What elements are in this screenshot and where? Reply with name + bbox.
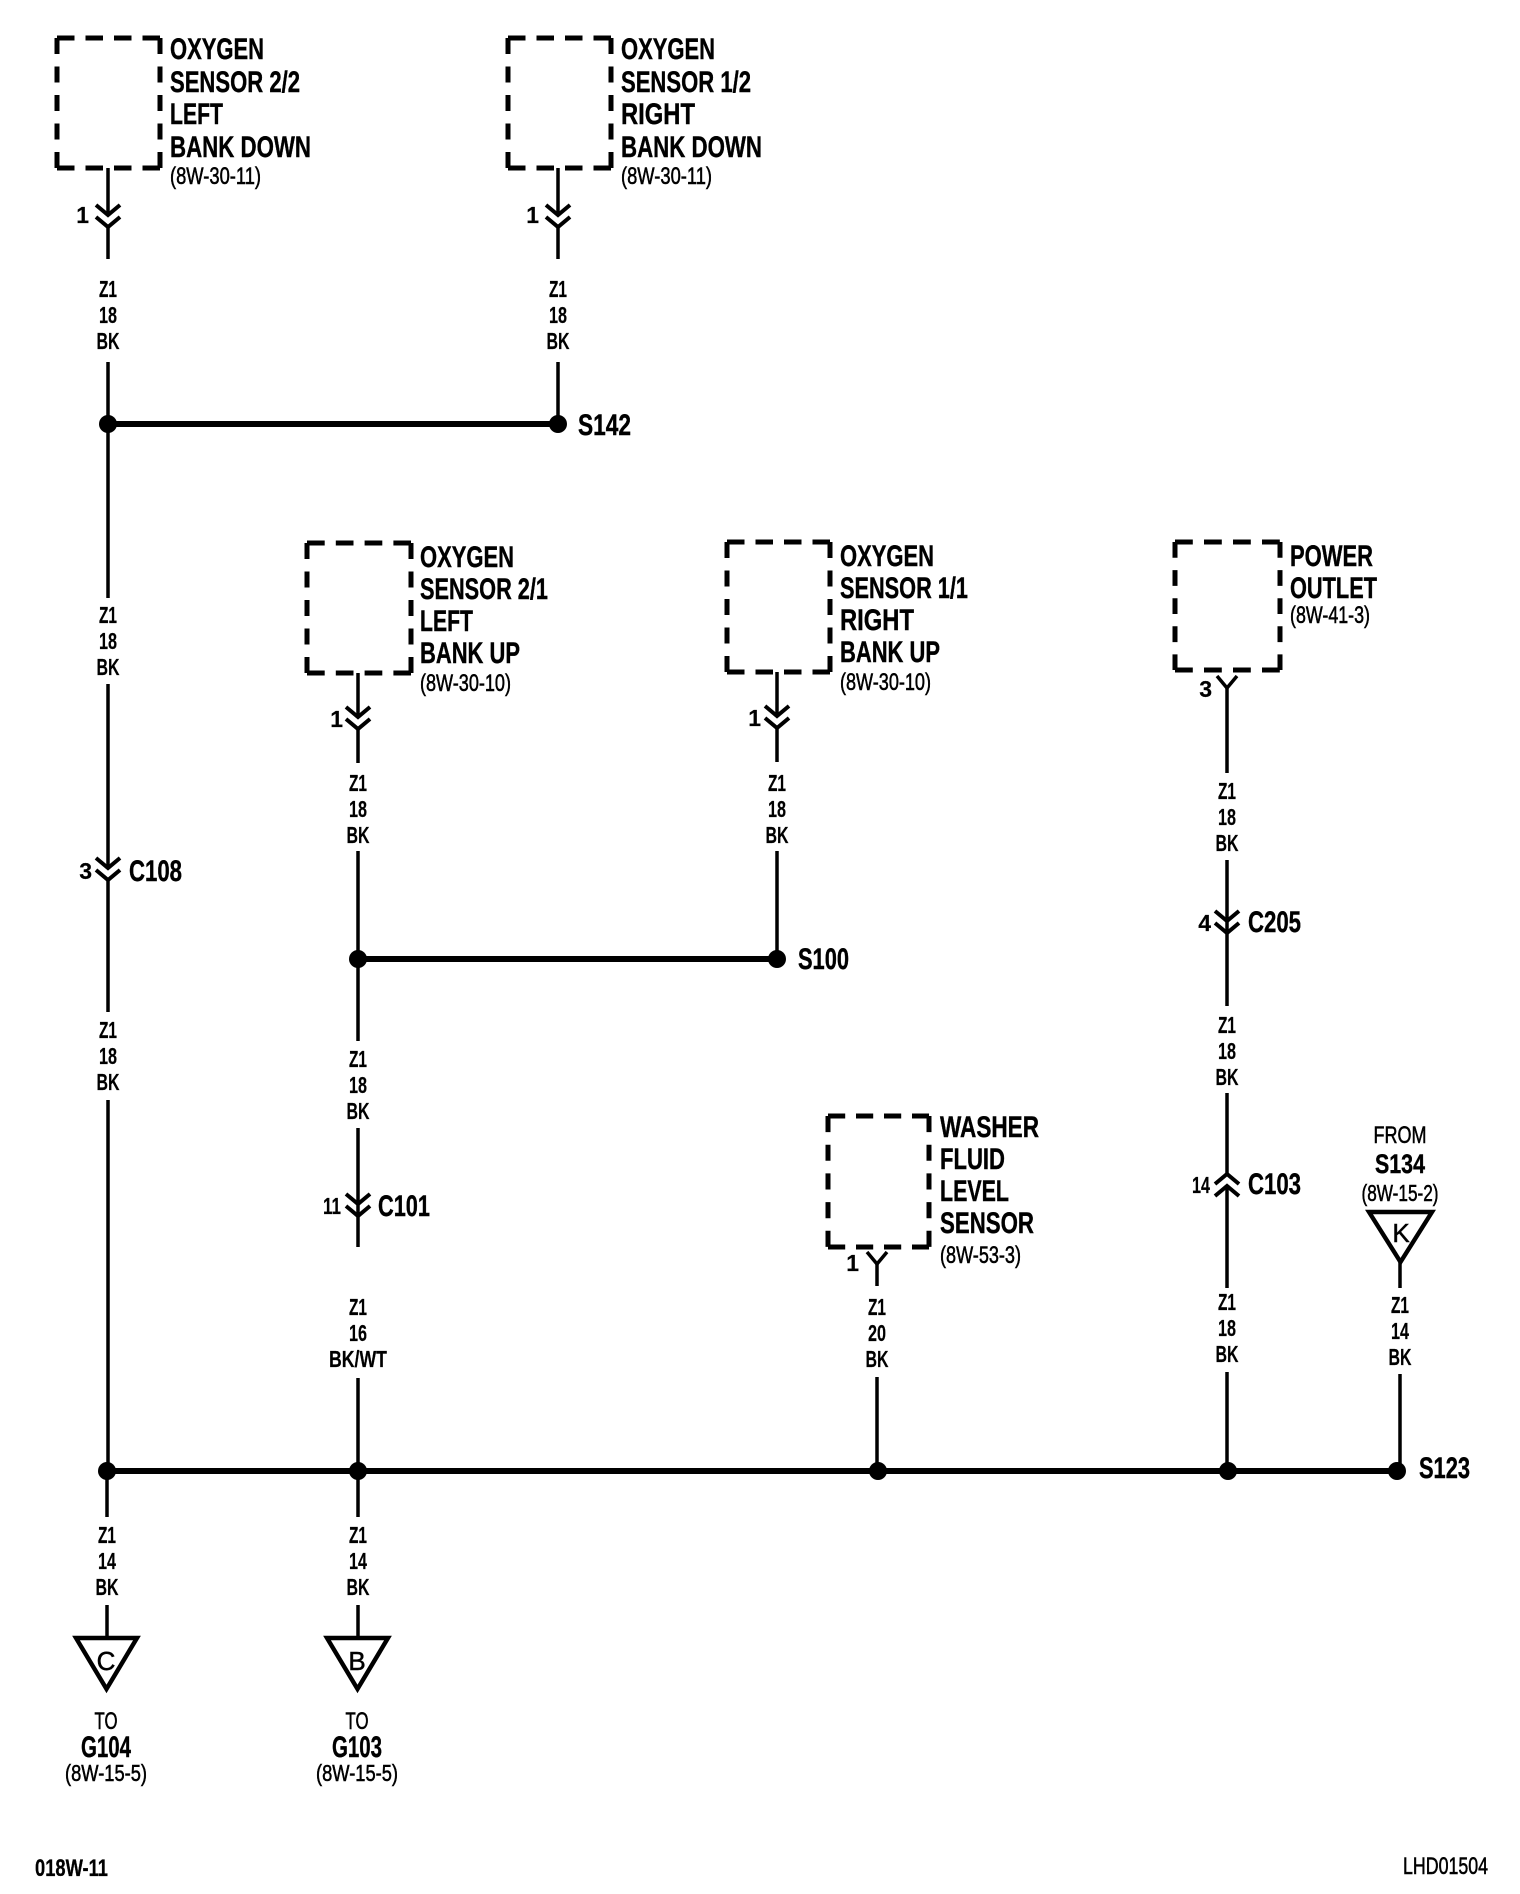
junction node	[98, 1462, 116, 1480]
wire	[1225, 1372, 1229, 1471]
connector pin 1 of oxygen sensor 1/2	[546, 205, 570, 215]
svg-text:18: 18	[1218, 1315, 1236, 1341]
svg-text:16: 16	[349, 1320, 367, 1346]
svg-text:BK: BK	[1389, 1344, 1412, 1370]
connector pin 3 of power outlet	[1217, 676, 1237, 688]
svg-text:18: 18	[99, 628, 117, 654]
svg-text:Z1: Z1	[349, 1046, 367, 1072]
svg-text:SENSOR: SENSOR	[940, 1207, 1034, 1240]
svg-text:18: 18	[349, 796, 367, 822]
svg-text:SENSOR 2/2: SENSOR 2/2	[170, 66, 300, 99]
connector pin 1 of washer fluid level sensor	[867, 1252, 887, 1264]
svg-text:BANK UP: BANK UP	[840, 636, 940, 669]
svg-text:SENSOR 1/2: SENSOR 1/2	[621, 66, 751, 99]
wire	[105, 1477, 109, 1517]
svg-text:RIGHT: RIGHT	[840, 604, 914, 637]
svg-text:SENSOR 1/1: SENSOR 1/1	[840, 572, 968, 605]
off-page connector C to G104	[76, 1638, 137, 1689]
svg-text:BK: BK	[866, 1346, 889, 1372]
wire	[356, 965, 360, 1041]
svg-text:POWER: POWER	[1290, 540, 1373, 573]
svg-text:K: K	[1392, 1218, 1410, 1248]
svg-text:WASHER: WASHER	[940, 1111, 1039, 1144]
svg-text:018W-11: 018W-11	[35, 1855, 108, 1882]
connector pin 1 of oxygen sensor 1/1	[765, 706, 789, 716]
splice S142	[549, 415, 567, 433]
svg-text:Z1: Z1	[99, 1017, 117, 1043]
svg-text:B: B	[348, 1646, 365, 1676]
splice S100	[768, 950, 786, 968]
svg-text:LHD01504: LHD01504	[1403, 1853, 1488, 1880]
off-page connector K from S134	[1369, 1212, 1432, 1262]
connector C103 pin 14	[1215, 1174, 1239, 1184]
connector C101 pin 11	[346, 1194, 370, 1204]
svg-text:(8W-30-10): (8W-30-10)	[840, 669, 931, 696]
wire	[356, 1128, 360, 1247]
svg-text:Z1: Z1	[98, 1522, 116, 1548]
svg-text:C: C	[97, 1646, 116, 1676]
svg-text:(8W-30-11): (8W-30-11)	[170, 163, 261, 190]
svg-text:C108: C108	[129, 855, 182, 888]
wire	[356, 1378, 360, 1471]
svg-text:Z1: Z1	[349, 1294, 367, 1320]
wire	[106, 684, 110, 868]
svg-text:LEVEL: LEVEL	[940, 1175, 1009, 1208]
svg-text:Z1: Z1	[1218, 1012, 1236, 1038]
svg-text:(8W-15-5): (8W-15-5)	[316, 1760, 398, 1786]
svg-text:BK: BK	[1216, 830, 1239, 856]
svg-text:1: 1	[76, 202, 89, 228]
wire	[556, 227, 560, 259]
svg-text:18: 18	[99, 302, 117, 328]
svg-text:FROM: FROM	[1374, 1122, 1427, 1149]
wire	[775, 728, 779, 762]
svg-text:18: 18	[549, 302, 567, 328]
connector C108 pin 3	[96, 858, 120, 868]
svg-text:18: 18	[1218, 804, 1236, 830]
svg-text:C205: C205	[1248, 906, 1301, 939]
junction node	[349, 950, 367, 968]
wire	[106, 168, 110, 215]
junction node	[1219, 1462, 1237, 1480]
component box OXYGEN SENSOR 1/1 RIGHT BANK UP	[727, 540, 830, 545]
svg-text:11: 11	[323, 1193, 341, 1219]
svg-text:18: 18	[768, 796, 786, 822]
wire	[1225, 1186, 1229, 1288]
wire	[106, 362, 110, 424]
svg-text:18: 18	[1218, 1038, 1236, 1064]
component box OXYGEN SENSOR 2/2 LEFT BANK DOWN	[57, 36, 160, 41]
svg-text:Z1: Z1	[349, 770, 367, 796]
wire	[106, 1100, 110, 1471]
wire	[775, 672, 779, 716]
svg-text:BK: BK	[766, 822, 789, 848]
svg-text:SENSOR 2/1: SENSOR 2/1	[420, 573, 548, 606]
svg-text:14: 14	[1391, 1318, 1409, 1344]
svg-text:Z1: Z1	[868, 1294, 886, 1320]
svg-text:1: 1	[846, 1250, 859, 1276]
svg-text:OXYGEN: OXYGEN	[621, 33, 715, 66]
svg-text:14: 14	[98, 1548, 116, 1574]
svg-text:(8W-41-3): (8W-41-3)	[1290, 602, 1370, 629]
svg-text:3: 3	[1199, 676, 1212, 702]
svg-text:BK: BK	[97, 328, 120, 354]
svg-text:S100: S100	[798, 943, 849, 976]
wire	[356, 1605, 360, 1638]
svg-text:BANK DOWN: BANK DOWN	[621, 131, 762, 164]
wire splice bus S123	[107, 1468, 1397, 1474]
wire	[356, 673, 360, 717]
svg-text:14: 14	[349, 1548, 367, 1574]
svg-text:1: 1	[526, 202, 539, 228]
svg-text:(8W-53-3): (8W-53-3)	[940, 1242, 1021, 1269]
svg-text:C103: C103	[1248, 1168, 1301, 1201]
off-page connector B to G103	[327, 1638, 388, 1689]
wire	[356, 1477, 360, 1517]
wire	[1225, 1093, 1229, 1174]
svg-text:BK: BK	[1216, 1341, 1239, 1367]
svg-text:BK: BK	[347, 1098, 370, 1124]
svg-text:Z1: Z1	[99, 602, 117, 628]
svg-text:RIGHT: RIGHT	[621, 98, 695, 131]
svg-text:BK: BK	[347, 1574, 370, 1600]
component box OXYGEN SENSOR 1/2 RIGHT BANK DOWN	[508, 36, 611, 41]
connector pin 1 of oxygen sensor 2/1	[346, 707, 370, 717]
svg-text:20: 20	[868, 1320, 886, 1346]
connector C205 pin 4	[1215, 911, 1239, 921]
svg-text:3: 3	[79, 858, 92, 884]
junction node	[99, 415, 117, 433]
svg-text:BK: BK	[347, 822, 370, 848]
svg-text:BK: BK	[547, 328, 570, 354]
svg-text:Z1: Z1	[99, 276, 117, 302]
svg-text:Z1: Z1	[1218, 778, 1236, 804]
wire	[106, 227, 110, 259]
svg-text:LEFT: LEFT	[170, 98, 223, 131]
svg-text:(8W-15-5): (8W-15-5)	[65, 1760, 147, 1786]
svg-text:OXYGEN: OXYGEN	[420, 541, 514, 574]
svg-text:S142: S142	[578, 409, 631, 442]
svg-text:OUTLET: OUTLET	[1290, 572, 1377, 605]
svg-text:LEFT: LEFT	[420, 605, 473, 638]
svg-text:(8W-30-10): (8W-30-10)	[420, 670, 511, 697]
wire	[356, 851, 360, 959]
wire	[775, 851, 779, 959]
component box WASHER FLUID LEVEL SENSOR	[828, 1114, 929, 1119]
svg-text:18: 18	[349, 1072, 367, 1098]
wire splice bus S100	[358, 956, 777, 962]
connector pin 1 of oxygen sensor 2/2	[96, 205, 120, 215]
junction node	[869, 1462, 887, 1480]
svg-text:Z1: Z1	[1391, 1292, 1409, 1318]
wire	[556, 362, 560, 424]
junction node	[349, 1462, 367, 1480]
svg-text:OXYGEN: OXYGEN	[170, 33, 264, 66]
svg-text:Z1: Z1	[768, 770, 786, 796]
wire	[105, 1605, 109, 1638]
svg-text:BK: BK	[97, 654, 120, 680]
wire	[106, 880, 110, 1012]
wire	[1398, 1262, 1402, 1288]
svg-text:Z1: Z1	[349, 1522, 367, 1548]
wire	[106, 430, 110, 598]
wire	[356, 729, 360, 763]
splice S123	[1388, 1462, 1406, 1480]
component box POWER OUTLET	[1175, 540, 1280, 545]
svg-text:BK: BK	[97, 1069, 120, 1095]
wire	[1225, 860, 1229, 1006]
svg-text:BK/WT: BK/WT	[329, 1346, 387, 1372]
svg-text:BANK UP: BANK UP	[420, 637, 520, 670]
wire	[1225, 700, 1229, 773]
wire	[1398, 1374, 1402, 1471]
svg-text:18: 18	[99, 1043, 117, 1069]
svg-text:(8W-30-11): (8W-30-11)	[621, 163, 712, 190]
svg-text:FLUID: FLUID	[940, 1143, 1005, 1176]
svg-text:1: 1	[330, 706, 343, 732]
svg-text:(8W-15-2): (8W-15-2)	[1362, 1180, 1439, 1206]
svg-text:14: 14	[1192, 1172, 1210, 1198]
svg-text:S123: S123	[1419, 1452, 1470, 1485]
svg-text:BK: BK	[1216, 1064, 1239, 1090]
wire splice bus S142	[108, 421, 558, 427]
svg-text:BK: BK	[96, 1574, 119, 1600]
svg-text:OXYGEN: OXYGEN	[840, 540, 934, 573]
svg-text:4: 4	[1198, 910, 1211, 936]
svg-text:Z1: Z1	[549, 276, 567, 302]
svg-text:BANK DOWN: BANK DOWN	[170, 131, 311, 164]
component box OXYGEN SENSOR 2/1 LEFT BANK UP	[307, 541, 411, 546]
svg-text:Z1: Z1	[1218, 1289, 1236, 1315]
wire	[556, 168, 560, 215]
svg-text:1: 1	[748, 705, 761, 731]
svg-text:C101: C101	[378, 1190, 430, 1223]
wire	[875, 1377, 879, 1471]
svg-text:S134: S134	[1375, 1149, 1425, 1179]
